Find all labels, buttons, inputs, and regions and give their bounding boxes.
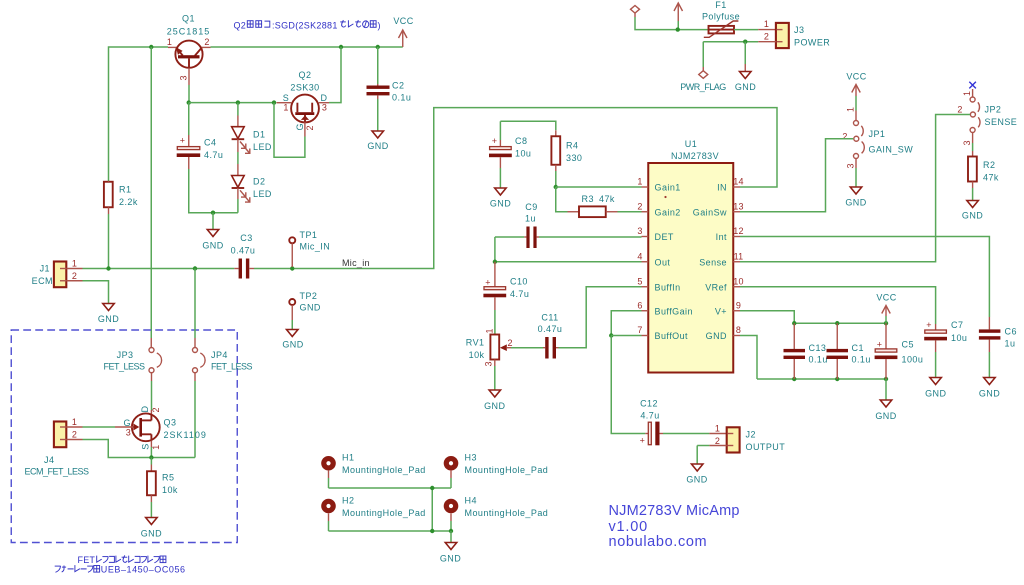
svg-text:ECM_FET_LESS: ECM_FET_LESS [25,467,90,477]
svg-text:V+: V+ [715,306,727,316]
svg-text:VCC: VCC [846,72,866,82]
svg-text:J4: J4 [44,455,54,465]
svg-text:R4: R4 [566,141,578,151]
svg-text:): ) [378,20,381,30]
svg-text:FET_LESS: FET_LESS [103,362,145,372]
svg-text:4: 4 [637,252,642,262]
wire Gain2 via R3 [556,187,568,212]
wire Q2 source-gate tie [274,103,305,158]
wire JP2 pin2 to Sense [740,115,970,262]
svg-text:D: D [321,93,328,103]
svg-text:GND: GND [735,82,756,92]
node junction Q2 source [272,100,276,104]
wire Gain1 [556,186,642,188]
svg-text:GND: GND [141,529,162,539]
wire top rail caps [794,322,886,324]
wire JP1 pin2 to GainSw [740,139,853,212]
svg-text:FET: FET [78,555,96,565]
pin numbers U1 left [637,177,642,336]
transistor Q1 [168,41,211,68]
node junction D1 top [236,100,240,104]
potentiometer RV1 [490,334,511,390]
node junction H4 gnd [449,529,453,533]
svg-text:1: 1 [72,259,77,269]
note Q2 pinout annotation [234,20,381,30]
svg-text:2: 2 [72,430,77,440]
power PWR_FLAG top-left of fuse [631,6,709,30]
svg-text:2SK30: 2SK30 [290,83,319,93]
svg-text:FET_LESS: FET_LESS [211,362,253,372]
svg-text:C7: C7 [951,320,963,330]
svg-text:J3: J3 [794,25,804,35]
svg-text:Q3: Q3 [164,418,177,428]
LED D2 [232,164,250,213]
svg-text:Polyfuse: Polyfuse [702,12,740,22]
svg-text:GND: GND [979,389,1000,399]
svg-text:C6: C6 [1005,327,1017,337]
svg-text:4.7u: 4.7u [640,411,659,421]
svg-text:LED: LED [253,142,272,152]
wire BuffOut down to C12 [611,336,645,434]
svg-text:Gain2: Gain2 [655,207,681,217]
svg-text:4.7u: 4.7u [204,150,223,160]
svg-text:MountingHole_Pad: MountingHole_Pad [465,508,549,518]
svg-text:2: 2 [842,132,847,142]
wire C2 top lead [377,47,379,84]
svg-text:2SK1109: 2SK1109 [164,430,207,440]
wire V+ down [740,311,794,324]
capacitor C1 [827,323,849,379]
wire Out row [495,261,642,263]
fuse F1 polyfuse [704,21,776,37]
capacitor C12 polarized [640,422,727,446]
ground below C2 [367,131,388,151]
svg-text:DET: DET [655,232,674,242]
svg-text:Mic_in: Mic_in [342,258,370,268]
mounting hole H3 [444,456,459,488]
wire bottom rail caps [757,378,886,380]
svg-text:2: 2 [508,338,513,348]
svg-text:12: 12 [733,226,743,236]
svg-text:10u: 10u [515,149,531,159]
svg-text:GND: GND [367,141,388,151]
wire pin6 pin7 tie [611,311,641,336]
svg-text::SGD(2SK2881: :SGD(2SK2881 [272,20,338,30]
svg-text:2: 2 [637,202,642,212]
LED D1 [232,103,250,164]
svg-text:14: 14 [733,177,743,187]
svg-text:GND: GND [845,198,866,208]
svg-text:0.1u: 0.1u [809,355,828,365]
wire J3 pin2 rail [703,42,776,67]
mounting hole H1 [321,456,336,488]
capacitor C5 polarized [875,323,898,379]
svg-text:3: 3 [962,140,972,145]
svg-text:3: 3 [484,361,494,366]
capacitor C6 [979,317,1001,399]
svg-text:GND: GND [282,340,303,350]
ground below JP1 [845,187,866,208]
capacitor C3 [234,259,254,279]
svg-text:2: 2 [957,105,962,115]
svg-text:3: 3 [322,103,327,113]
node junction R4-Gain1 [554,185,558,189]
svg-text:S: S [140,443,150,449]
svg-text:0.1u: 0.1u [392,93,411,103]
resistor R5 [147,458,156,518]
resistor R3 [568,206,642,217]
svg-text:BuffIn: BuffIn [655,282,681,292]
connector J3 [776,23,789,48]
svg-text:1u: 1u [525,214,536,224]
pin names U1 left [655,183,693,342]
wire J1 pin2 to gnd [83,281,109,303]
svg-text:GND: GND [202,241,223,251]
power PWR_FLAG below [680,67,726,92]
pin stubs U1 right [733,187,740,336]
node junction gnd branch J3 [743,40,747,44]
svg-text:+: + [877,340,882,350]
svg-text:Mic_IN: Mic_IN [300,242,331,252]
svg-text:1: 1 [846,107,856,112]
svg-text:GND: GND [962,211,983,221]
svg-text:1: 1 [485,328,495,333]
svg-text:Out: Out [655,257,671,267]
node junction C2 branch [376,45,380,49]
node junction Q3 source R5 [149,455,153,459]
svg-text:0.1u: 0.1u [852,355,871,365]
ground below LED rail [202,213,223,251]
wire GND pin8 down [740,336,757,380]
svg-text:Q1: Q1 [182,14,195,24]
svg-text:1: 1 [167,37,172,47]
svg-text:R1: R1 [119,185,131,195]
svg-text:1: 1 [151,445,161,450]
svg-text:3: 3 [637,226,642,236]
ground below RV1 [484,390,505,411]
ground below C5 [875,379,896,421]
testpoint TP2 [282,299,303,350]
node junction pin7 [609,333,613,337]
svg-text:MountingHole_Pad: MountingHole_Pad [465,465,549,475]
svg-text:1: 1 [283,103,288,113]
svg-text:U1: U1 [685,139,697,149]
ground below C8 [490,188,511,209]
svg-text:10u: 10u [951,333,967,343]
svg-text:100u: 100u [902,355,924,365]
svg-text:RV1: RV1 [466,338,485,348]
svg-text:GND: GND [98,314,119,324]
svg-text:J2: J2 [746,430,756,440]
wire mic row right + up to IN [254,108,777,269]
svg-text:5: 5 [637,277,642,287]
capacitor C2 [367,84,390,131]
node junction TP1 [290,266,294,270]
resistor R4 [551,130,560,187]
testpoint TP1 [289,237,295,267]
svg-text:H4: H4 [465,496,477,506]
jumper JP2 [970,89,980,143]
svg-text:+: + [180,136,185,146]
svg-text:330: 330 [566,153,582,163]
svg-text:6: 6 [637,301,642,311]
node junction Q2 drain branch [339,45,343,49]
resistor R1 [104,181,113,269]
svg-text:+: + [640,436,645,446]
svg-text:47k: 47k [983,173,999,183]
svg-text:nobulabo.com: nobulabo.com [609,534,708,550]
svg-text:4.7u: 4.7u [510,289,529,299]
svg-text:R2: R2 [983,160,995,170]
wire Q1 collector to VCC stem [211,46,403,48]
capacitor C13 [784,323,806,379]
svg-text:1: 1 [962,91,972,96]
wire Q1 emitter down [188,68,190,85]
pin stubs U1 left [642,187,649,336]
svg-text:D: D [140,406,150,413]
no-connect X JP2 pin1 [969,82,976,89]
svg-text:GND: GND [875,411,896,421]
node junction VCC-fuse [676,27,680,31]
op-amp U1 NJM2783V body [648,163,733,373]
svg-text:GND: GND [490,199,511,209]
power VCC arrow top [674,3,683,30]
svg-text:Gain1: Gain1 [655,183,681,193]
connector J1 [54,262,83,288]
svg-text:1: 1 [72,417,77,427]
svg-text:C11: C11 [541,313,558,323]
ground below J3 [735,42,756,92]
transistor Q2 [277,95,330,137]
node junctions cap rails [792,321,796,325]
wire mounting rails [329,487,452,489]
ground below J1 [98,304,119,325]
svg-text:25C1815: 25C1815 [167,27,211,37]
svg-text:G: G [124,418,131,428]
svg-text:1: 1 [637,177,642,187]
svg-text:C3: C3 [240,233,252,243]
svg-text:JP3: JP3 [117,350,134,360]
svg-text:C8: C8 [515,136,527,146]
node junction C4 top [187,100,191,104]
svg-text:D1: D1 [253,130,265,140]
svg-text:Q2: Q2 [234,20,247,30]
capacitor C10 polarized [483,262,506,334]
svg-text:13: 13 [733,202,743,212]
svg-text:GND: GND [484,401,505,411]
mounting hole H4 [444,499,459,531]
svg-text:VRef: VRef [705,282,727,292]
svg-text:PWR_FLAG: PWR_FLAG [680,82,726,92]
resistor R2 [968,143,977,200]
ground below R2 [962,201,983,221]
svg-text:C2: C2 [392,81,404,91]
ground below H4 [440,531,461,564]
svg-text:GainSw: GainSw [693,207,727,217]
svg-text:v1.00: v1.00 [609,519,648,535]
pin numbers U1 right [733,177,743,336]
capacitor C9 [495,227,642,249]
stray dot [664,196,666,198]
power VCC above JP1 [846,72,866,111]
svg-text:BuffGain: BuffGain [655,306,693,316]
svg-text:R5: R5 [162,473,174,483]
svg-text:JP1: JP1 [869,129,886,139]
svg-text:GND: GND [686,475,707,485]
svg-text:1u: 1u [1005,339,1016,349]
node junction Q1 base rail x151 [149,45,153,49]
svg-text:9: 9 [736,301,741,311]
wire LED rail [189,102,274,104]
svg-text:IN: IN [717,183,727,193]
wire mic row [83,268,235,270]
wire VCC rail top [109,47,169,181]
capacitor C11 [511,287,642,359]
pin names U1 right [693,183,727,342]
svg-text:LED: LED [253,189,272,199]
svg-text:10k: 10k [162,485,178,495]
svg-text:VCC: VCC [876,293,896,303]
svg-text:S: S [283,93,289,103]
wire Q2 drain branch [329,47,341,103]
svg-text:MountingHole_Pad: MountingHole_Pad [342,508,426,518]
power VCC above C5 [876,293,896,324]
svg-text:F1: F1 [715,0,726,10]
svg-text:+: + [492,136,497,146]
dashed box FET_LESS [11,330,237,543]
transistor Q3 [115,410,160,458]
svg-text:NJM2783V: NJM2783V [671,151,719,161]
svg-text:C10: C10 [510,277,528,287]
ground below R5 [141,518,162,539]
wire Int to C6 [740,237,989,318]
svg-text:C1: C1 [852,343,864,353]
node junction Out-C10 [493,260,497,264]
svg-text:GND: GND [440,554,461,564]
connector J2 [727,427,740,452]
svg-text:GND: GND [925,389,946,399]
connector J4 [54,422,195,458]
svg-text:1: 1 [715,424,720,434]
svg-text:C9: C9 [525,202,537,212]
node junction H rail bottom [430,529,434,533]
svg-text:UEB–1450–OC056: UEB–1450–OC056 [101,565,186,575]
svg-text:G: G [295,123,305,130]
jumper JP1 [854,111,865,187]
svg-text:MountingHole_Pad: MountingHole_Pad [342,465,426,475]
mounting hole H2 [321,499,336,531]
svg-text:POWER: POWER [794,38,830,48]
svg-text:JP4: JP4 [211,350,228,360]
svg-text:10: 10 [733,277,743,287]
note FET-less mic annotation line 2 [55,565,186,575]
svg-text:3: 3 [126,428,131,438]
power VCC symbol top-left [393,16,413,47]
svg-text:2: 2 [715,436,720,446]
svg-text:2: 2 [305,125,315,130]
svg-text:10k: 10k [469,350,485,360]
wire JP3 drop from top rail [150,47,152,338]
svg-text:R3: R3 [582,194,594,204]
node junction H rail top [430,486,434,490]
svg-text:0.47u: 0.47u [231,246,256,256]
svg-text:3: 3 [178,75,188,80]
svg-text:TP2: TP2 [300,291,318,301]
svg-text:11: 11 [734,252,744,262]
svg-text:2: 2 [204,37,209,47]
svg-text:NJM2783V MicAmp: NJM2783V MicAmp [609,503,740,519]
svg-text:C4: C4 [204,138,216,148]
svg-text:+: + [485,278,490,288]
svg-text:H2: H2 [342,496,354,506]
svg-text:TP1: TP1 [300,230,318,240]
svg-text:D2: D2 [253,177,265,187]
note FET-less mic annotation line 1 [78,555,166,565]
capacitor C7 polarized [924,320,947,399]
node junction JP4 drop [193,266,197,270]
svg-text:C5: C5 [902,340,914,350]
svg-text:2: 2 [151,407,161,412]
jumper JP3 [149,338,162,410]
wire pin7 [611,335,641,337]
wire VRef to C7 [740,287,936,324]
svg-text:OUTPUT: OUTPUT [746,442,786,452]
svg-text:GND: GND [300,303,321,313]
svg-text:3: 3 [846,163,856,168]
svg-text:GAIN_SW: GAIN_SW [869,145,914,155]
svg-text:2: 2 [764,32,769,42]
node junction LED-C4 gnd rail [211,211,215,215]
svg-text:VCC: VCC [393,16,413,26]
svg-text:47k: 47k [599,194,615,204]
svg-text:J1: J1 [40,264,50,274]
svg-text:1: 1 [764,19,769,29]
svg-text:GND: GND [706,331,727,341]
jumper JP4 [193,269,206,458]
svg-text:2.2k: 2.2k [119,197,138,207]
svg-text:Q2: Q2 [299,70,312,80]
capacitor C8 polarized [489,121,556,187]
svg-text:+: + [926,320,931,330]
wire DET drop [494,237,496,262]
capacitor C4 polarized [177,103,238,213]
svg-text:JP2: JP2 [985,105,1002,115]
svg-text:0.47u: 0.47u [538,324,563,334]
svg-text:H1: H1 [342,453,354,463]
svg-text:BuffOut: BuffOut [655,331,689,341]
svg-text:H3: H3 [465,453,477,463]
svg-text:8: 8 [736,325,741,335]
wire J2 pin2 to gnd [686,446,726,485]
svg-text:C12: C12 [640,399,658,409]
svg-text:ECM: ECM [32,276,53,286]
svg-text:7: 7 [637,325,642,335]
node junction R1 bottom [106,266,110,270]
svg-text:Int: Int [716,232,727,242]
svg-text:SENSE: SENSE [985,117,1018,127]
svg-text:2: 2 [72,271,77,281]
svg-text:Sense: Sense [699,257,727,267]
svg-text:C13: C13 [809,343,827,353]
